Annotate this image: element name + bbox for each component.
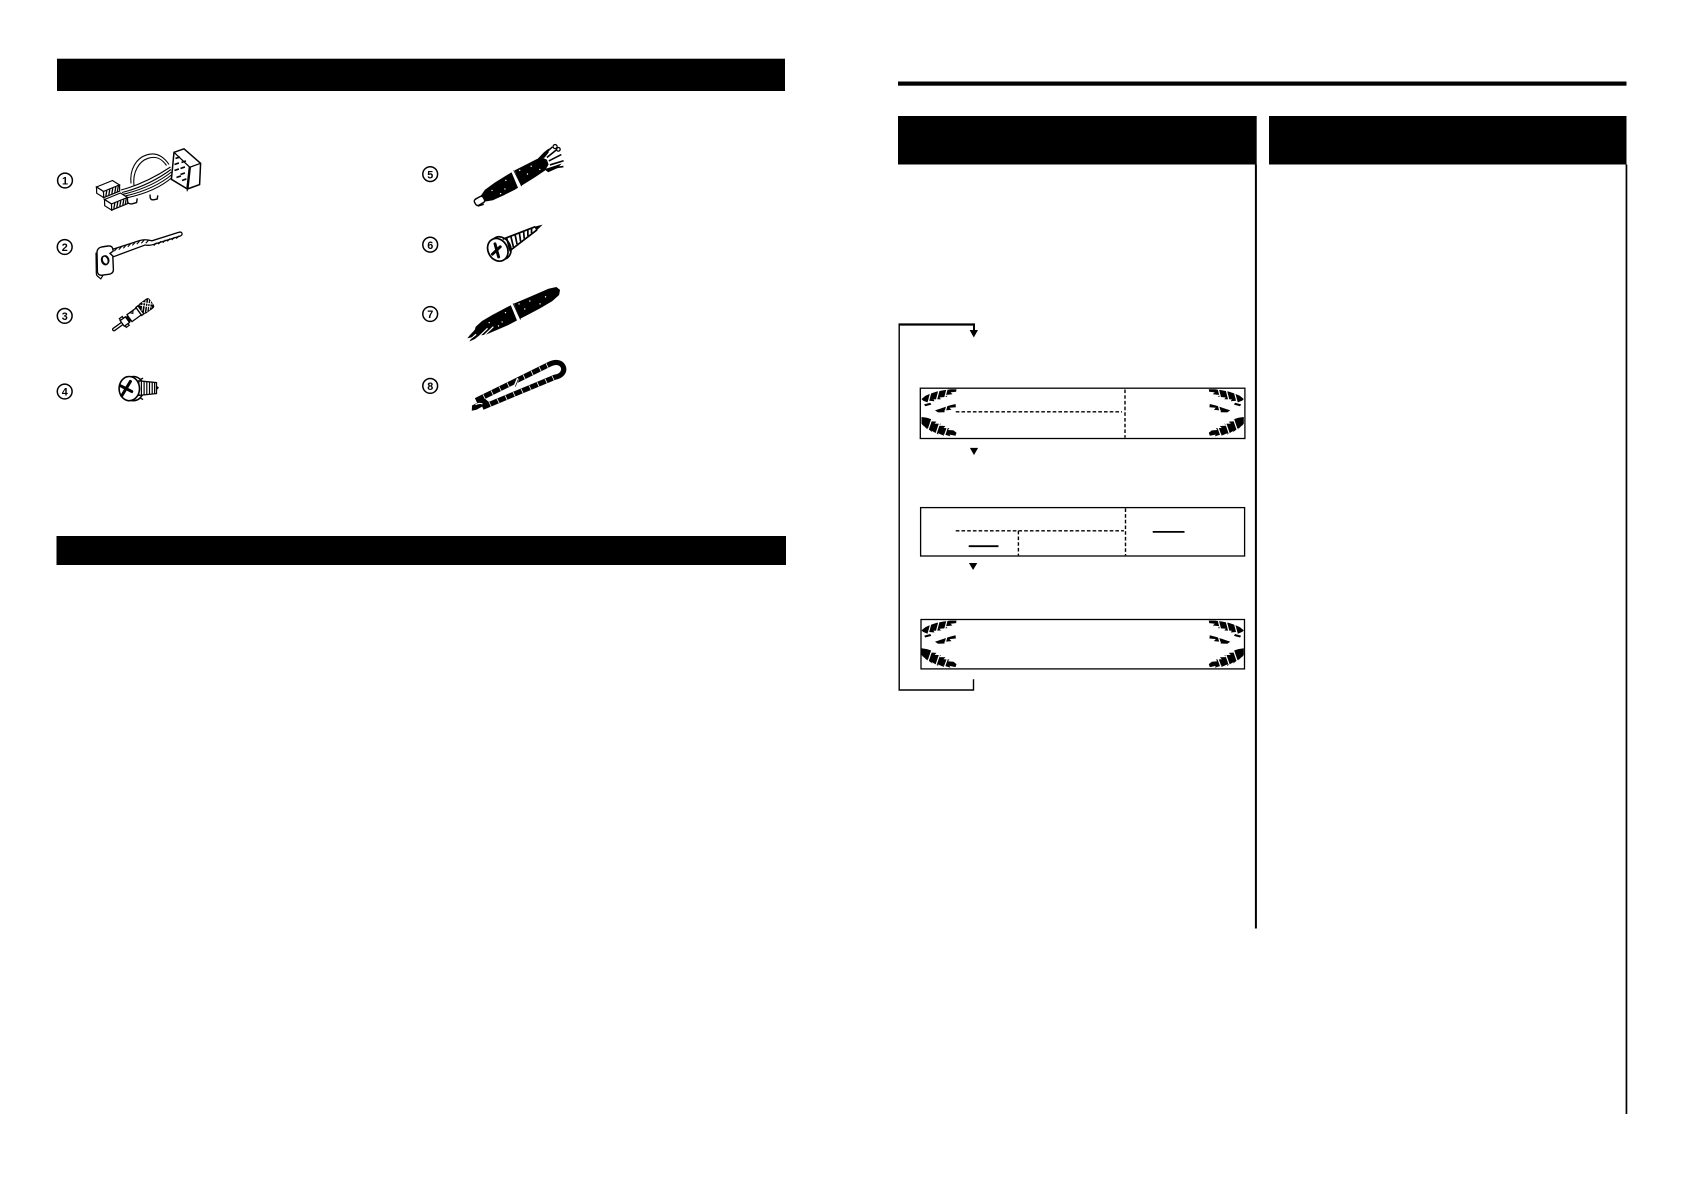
flow loop wire: left return line [899,325,973,691]
item 4 machine screw illustration [118,377,159,401]
dangling terminal hooks [150,195,158,200]
item 2 release tool illustration [96,232,182,279]
right column A header bar (solid black) [898,116,1257,165]
item 3 circled number [57,309,72,324]
display box 3 frame [921,620,1245,669]
display box 2 dashed cursor line [956,530,1124,532]
ISO connector pin slots [175,157,187,181]
display box 2 frame [921,508,1245,556]
svg-text:1: 1 [62,176,68,188]
plug collar and tabs [119,317,123,321]
item 5 power cord bundle illustration [469,143,568,213]
car connector upper [97,181,120,192]
flow loop wire: top segment [899,323,976,325]
svg-text:7: 7 [427,309,433,321]
arrowhead 1 [970,330,978,338]
display box 2 solid segment right [1153,531,1185,533]
screw threads [503,222,540,251]
cord loop strands [476,362,564,407]
display box 1 wind mark right [1209,389,1244,437]
bundle speckles [487,291,550,329]
item 8 circled number [423,379,438,394]
car connector lower [105,193,128,204]
split frayed end [465,328,479,339]
item 8 folded antenna cord illustration [472,362,564,410]
item 2 circled number [57,240,72,255]
item 5 circled number [423,167,438,182]
bundle speckles [489,161,542,198]
tool shaft [111,232,183,257]
cord plug end [472,399,490,411]
plug body [127,308,141,322]
screw shaft [139,381,157,396]
svg-text:2: 2 [62,242,68,254]
right column B header bar (solid black) [1269,116,1627,165]
display box 3 wind mark right [1209,621,1244,669]
display box 1 frame [920,388,1245,438]
shaft serrations [114,236,179,251]
braid texture [483,363,554,406]
harness wire arch [131,154,169,184]
screw head face [119,377,139,401]
item 1 circled number [58,173,73,188]
item 1 harness illustration [97,149,201,210]
phillips cross [118,379,133,397]
arrowhead 2 [970,448,978,455]
display box 1 dashed cursor line [956,411,1122,413]
left page second header bar (solid black) [57,536,787,565]
display box 2 solid segment left [969,545,999,547]
flow loop wire: arrow stem [973,325,975,331]
white cable tie [510,170,523,188]
plate hole [100,255,109,265]
display box 2 dashed divider tall [1125,508,1127,555]
item 6 tapping screw illustration [484,214,549,265]
item 3 antenna plug illustration [109,297,155,335]
display box 1 wind mark left [922,389,957,437]
white cable tie [510,303,522,321]
tool plate [97,246,113,275]
item 6 circled number [423,237,438,252]
display box 2 dashed divider short [1017,531,1019,556]
arrowhead 3 [969,563,977,570]
right page outer rule [1626,165,1628,1115]
display box 3 wind mark left [922,621,957,669]
harness wire curves [122,170,171,193]
svg-text:5: 5 [427,169,433,181]
item 4 circled number [57,384,72,399]
plug pin [112,322,124,331]
item 7 circled number [423,307,438,322]
right page top rule [898,82,1627,86]
screw head side band [123,377,143,401]
knurled cap [137,297,155,315]
display box 1 dashed divider [1124,390,1126,438]
ISO connector block body [171,149,200,189]
column divider rule [1255,165,1257,929]
svg-text:4: 4 [62,387,68,399]
item 7 speaker cord bundle illustration [462,283,564,344]
svg-text:3: 3 [62,311,68,323]
svg-text:6: 6 [427,240,433,252]
svg-text:8: 8 [427,381,433,393]
white cable tie [514,378,520,387]
left page header bar (section title, solid black) [57,59,785,91]
connector at cord end [473,195,485,206]
